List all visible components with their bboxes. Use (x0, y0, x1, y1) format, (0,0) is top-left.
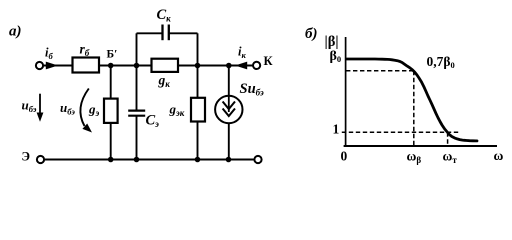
svg-text:uбэ: uбэ (60, 100, 75, 117)
svg-text:iк: iк (238, 45, 246, 61)
svg-text:Suбэ: Suбэ (240, 81, 265, 98)
svg-text:0: 0 (341, 149, 348, 164)
svg-text:|β|: |β| (325, 34, 339, 50)
svg-text:β0: β0 (330, 49, 342, 64)
svg-text:а): а) (9, 24, 22, 40)
svg-text:Cк: Cк (157, 7, 172, 24)
svg-text:Cэ: Cэ (146, 113, 160, 130)
svg-text:б): б) (305, 26, 317, 42)
svg-text:0,7β0: 0,7β0 (427, 54, 455, 70)
svg-text:rб: rб (80, 42, 90, 59)
svg-text:Э: Э (22, 150, 30, 164)
svg-text:Б′: Б′ (107, 48, 118, 60)
svg-text:ω: ω (494, 148, 504, 163)
svg-text:uбэ: uбэ (22, 98, 37, 115)
svg-text:gк: gк (158, 73, 171, 90)
svg-text:iб: iб (45, 46, 53, 62)
svg-text:1: 1 (333, 122, 340, 137)
svg-text:gэ: gэ (88, 102, 100, 119)
svg-text:К: К (264, 54, 273, 68)
svg-text:ωт: ωт (443, 149, 458, 166)
svg-text:ωβ: ωβ (407, 149, 422, 166)
svg-text:gэк: gэк (169, 102, 185, 119)
